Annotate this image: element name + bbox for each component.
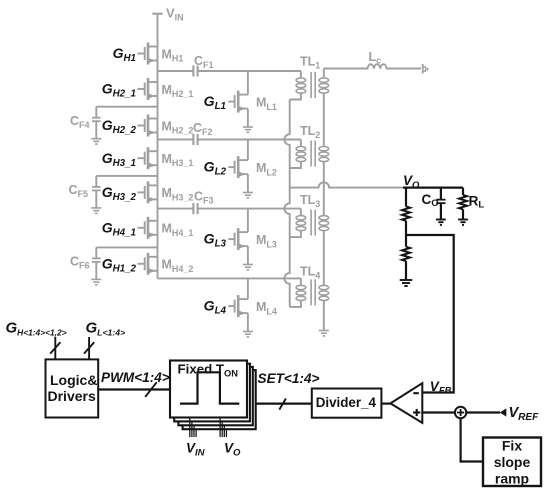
svg-text:slope: slope bbox=[494, 454, 531, 470]
svg-text:SET<1:4>: SET<1:4> bbox=[258, 371, 320, 386]
svg-text:Fix: Fix bbox=[502, 438, 522, 454]
svg-text:ramp: ramp bbox=[495, 471, 529, 487]
svg-text:PWM<1:4>: PWM<1:4> bbox=[101, 370, 170, 385]
svg-text:Divider_4: Divider_4 bbox=[316, 395, 377, 410]
svg-text:Logic&: Logic& bbox=[50, 372, 97, 388]
svg-text:Drivers: Drivers bbox=[48, 388, 96, 404]
